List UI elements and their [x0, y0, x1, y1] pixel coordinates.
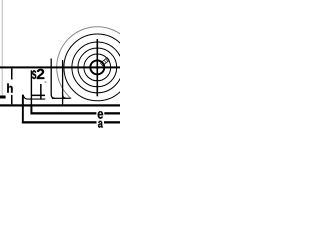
base left end edge / a-hook	[22, 95, 24, 124]
h dimension line	[11, 68, 13, 104]
h label	[6, 80, 17, 95]
e label	[96, 112, 104, 115]
housing outer circle (light, clipped by base top)	[57, 27, 138, 108]
base bottom line	[0, 104, 120, 106]
s2 label	[32, 69, 46, 80]
boss fillet to base top	[63, 94, 67, 98]
a dimension line	[22, 121, 120, 123]
bolt hole left edge / e-hook	[31, 70, 32, 104]
bore circle	[90, 60, 104, 74]
e-hook lower (thicker)	[30, 104, 32, 114]
base left end: fillet	[23, 95, 27, 99]
bolt hole crossbar	[31, 95, 45, 97]
inner ring circle	[84, 54, 111, 81]
base top edge right	[52, 98, 71, 99]
e dimension line	[31, 112, 120, 114]
base top edge	[28, 99, 46, 100]
vertical centerline	[97, 39, 99, 96]
cropped black bar at left edge	[0, 96, 6, 99]
outer ring circle	[72, 42, 123, 93]
bolt hole right edge	[40, 84, 42, 100]
s2 contour line + fillet	[51, 59, 55, 99]
set screw	[101, 58, 110, 66]
horizontal centerline	[0, 66, 120, 68]
raceway circle	[78, 48, 117, 87]
a label	[97, 121, 105, 124]
hidden-line tick	[45, 81, 47, 83]
adjacent-view edge (light vertical line at left)	[1, 0, 3, 97]
inner contour line + fillet	[62, 60, 64, 104]
boss circle	[64, 34, 131, 101]
